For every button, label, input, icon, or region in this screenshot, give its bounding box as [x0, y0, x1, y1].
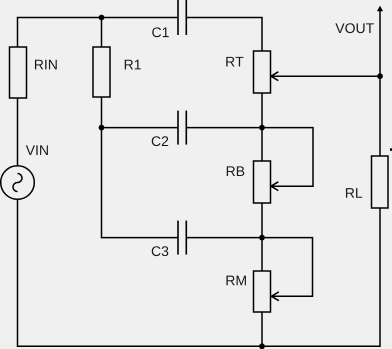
node handle dot at right edge — [390, 148, 392, 151]
resistor R1 — [93, 47, 141, 97]
potentiometer RT — [226, 51, 278, 93]
wire node B down to C3 left plate — [102, 128, 178, 238]
capacitor C2 — [152, 111, 187, 147]
wire RT wiper to VOUT line — [271, 75, 381, 77]
wire RT bottom to RB top — [261, 93, 263, 161]
wire RB wiper loop — [262, 128, 313, 187]
wire RM bottom to ground rail — [261, 312, 263, 346]
wire R1 top stub — [101, 18, 103, 48]
wire C1 right plate to RT top — [187, 18, 263, 52]
junction ground rail / RM bottom — [259, 343, 265, 349]
wire RM wiper loop — [262, 238, 313, 297]
wire RIN bottom to VIN top — [17, 98, 19, 166]
source VIN (AC) — [1, 145, 48, 199]
wire node B to C2 left plate — [102, 127, 178, 129]
junction node M: RB bottom / C3 / RM — [259, 235, 265, 241]
wire top rail: RIN top to C1 left plate — [18, 18, 178, 48]
potentiometer RM — [226, 271, 278, 312]
resistor RIN — [10, 47, 57, 98]
node VOUT output arrow — [335, 6, 383, 33]
junction R1 top — [99, 15, 105, 21]
junction node B: R1 bottom / C2 / C3 branch — [99, 125, 105, 131]
resistor RL — [346, 156, 388, 208]
capacitor C3 — [152, 221, 187, 257]
wire R1 bottom to node B — [101, 97, 103, 128]
junction VOUT / RT wiper — [377, 73, 383, 79]
wire VIN bottom + ground rail bottom + RL bottom riser — [18, 200, 381, 347]
wire C3 right plate to node M — [187, 237, 263, 239]
capacitor C1 — [152, 0, 186, 37]
potentiometer RB — [227, 161, 279, 203]
wire VOUT line down to RL top — [379, 10, 381, 156]
wire RB bottom to RM top — [261, 203, 263, 271]
wire C2 right plate to node T — [187, 127, 263, 129]
junction node T: RT bottom / C2 / RB — [259, 125, 265, 131]
